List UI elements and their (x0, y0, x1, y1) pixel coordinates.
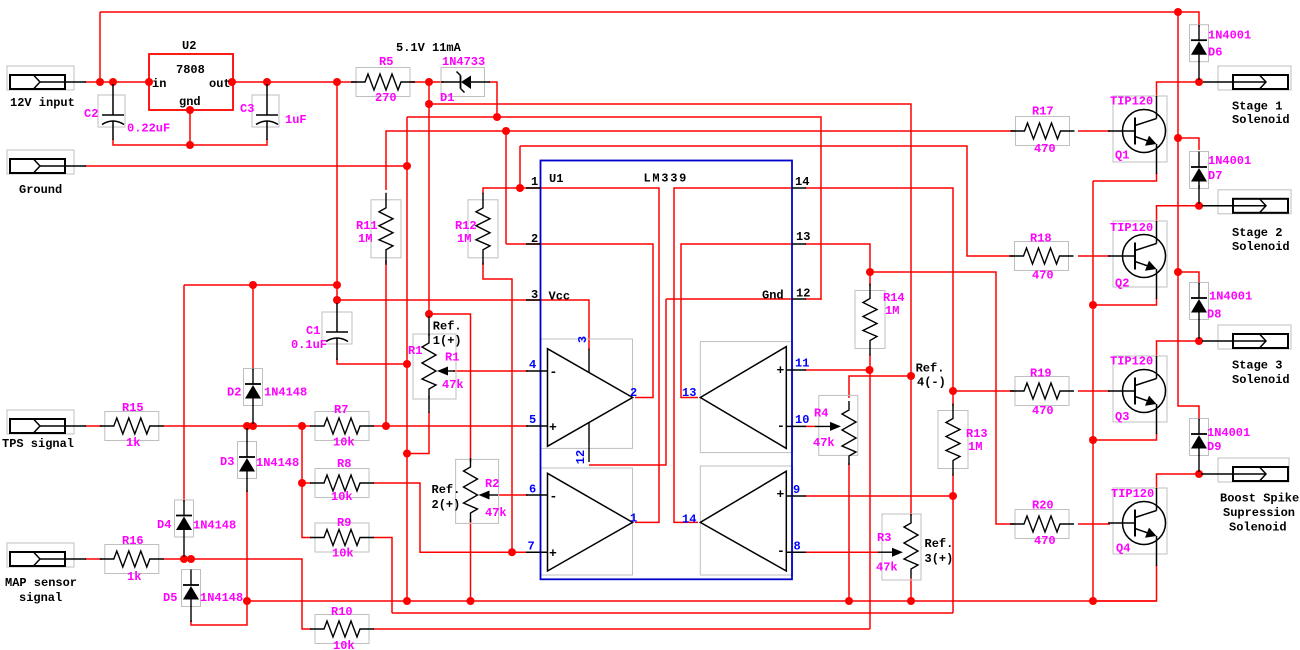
svg-text:1N4148: 1N4148 (256, 456, 299, 470)
resistor R10 10k (315, 615, 369, 644)
connector J3 TPS signal (7, 410, 74, 434)
svg-text:D7: D7 (1208, 169, 1222, 183)
wire R14 bottom (869, 354, 871, 370)
resistor R18 470 (1015, 242, 1069, 271)
connector J8 Boost Spike Supression Solenoid (1218, 458, 1289, 482)
wire C2-C3 bottom row (113, 139, 267, 145)
svg-text:R16: R16 (122, 534, 144, 548)
wire pin13 bus to R20 (870, 272, 1015, 524)
zener diode D1 1N4733 (441, 68, 485, 97)
wire pin6 row from R2 wiper (498, 494, 528, 496)
svg-text:Solenoid: Solenoid (1232, 240, 1290, 254)
wire pin2 riser (505, 131, 507, 244)
IC U1 LM339 box (541, 161, 793, 580)
svg-text:D5: D5 (163, 591, 177, 605)
wire R13 top lead (952, 391, 954, 406)
svg-text:0.1uF: 0.1uF (291, 338, 327, 352)
svg-text:470: 470 (1032, 404, 1054, 418)
wire R8 left stub (302, 482, 311, 484)
wire pin9 row (805, 495, 953, 497)
wire 5.1V distribution bus (429, 104, 911, 378)
svg-text:gnd: gnd (179, 95, 201, 109)
svg-text:7808: 7808 (176, 63, 205, 77)
svg-text:Ref.: Ref. (433, 320, 462, 334)
wire +12V rail right side (1178, 12, 1199, 420)
svg-text:D6: D6 (1208, 46, 1222, 60)
svg-text:LM339: LM339 (644, 172, 689, 186)
svg-text:6: 6 (529, 483, 536, 497)
resistor R20 470 (1015, 510, 1069, 539)
svg-text:12: 12 (574, 450, 588, 464)
svg-text:47k: 47k (442, 378, 464, 392)
svg-text:4: 4 (529, 358, 536, 372)
wire TPS branch riser to R8 R9 (302, 426, 311, 538)
svg-text:2(+): 2(+) (432, 498, 461, 512)
svg-text:470: 470 (1032, 269, 1054, 283)
svg-text:R11: R11 (356, 219, 378, 233)
wire Gnd pin12 internal row (589, 299, 666, 465)
wire pin11 row (805, 369, 870, 371)
wire Q2 emitter to rail (1093, 298, 1157, 305)
wire pin4 row from R1 wiper (453, 370, 528, 372)
svg-text:TPS signal: TPS signal (2, 437, 74, 451)
svg-text:47k: 47k (485, 506, 507, 520)
svg-text:1N4148: 1N4148 (200, 591, 243, 605)
svg-text:Ref.: Ref. (916, 362, 945, 376)
wire D4 riser (183, 285, 185, 502)
wire R9 bus (392, 612, 953, 614)
connector J4 MAP sensor signal (7, 543, 74, 567)
svg-text:U1: U1 (549, 172, 563, 186)
svg-text:R1: R1 (445, 351, 459, 365)
wire Q1 emitter to rail (1093, 173, 1157, 181)
wire MAP connector to R16 (85, 558, 102, 560)
svg-text:U2: U2 (182, 39, 196, 53)
wire Q4 collector to D9 node (1157, 474, 1200, 489)
wire pin13 stub to R14 (805, 244, 870, 286)
svg-text:D9: D9 (1207, 440, 1221, 454)
svg-text:Stage 3: Stage 3 (1232, 359, 1282, 373)
svg-text:Ground: Ground (19, 183, 62, 197)
svg-text:R9: R9 (337, 516, 351, 530)
wire R18 to Q2 base (1078, 255, 1110, 257)
wire regulator out to R5 (232, 81, 357, 83)
connector J5 Stage 1 Solenoid (1218, 66, 1291, 90)
wire Q3 emitter to rail (1093, 433, 1157, 440)
svg-text:R12: R12 (455, 219, 477, 233)
wire TPS row R7 to pin5 (373, 425, 528, 427)
diode D8 1N4001 (1190, 283, 1209, 320)
svg-text:Gnd: Gnd (762, 289, 784, 303)
svg-text:1N4148: 1N4148 (264, 386, 307, 400)
wire regulator gnd pin (189, 110, 191, 145)
svg-text:470: 470 (1034, 142, 1056, 156)
svg-text:TIP120: TIP120 (1110, 355, 1153, 369)
wire pin10 stub (805, 425, 815, 427)
diode D4 1N4148 (175, 500, 194, 537)
svg-text:R3: R3 (877, 531, 891, 545)
wire D2 top lead riser (252, 285, 254, 370)
svg-text:R19: R19 (1030, 367, 1052, 381)
svg-text:R13: R13 (966, 427, 988, 441)
wire pin1 bus to R18 (520, 146, 1015, 256)
wire 12V input to regulator row (85, 81, 149, 83)
wire R4 top to 5.1V (849, 376, 911, 398)
pin stubs U1 (526, 187, 541, 189)
wire U1a output bus to R17 (386, 131, 1015, 190)
wire pin11 riser to R10 bus (869, 370, 871, 629)
wire C1 bottom to ground rail (337, 358, 407, 364)
transistor Q1 TIP120 (1113, 96, 1167, 162)
svg-text:5.1V 11mA: 5.1V 11mA (396, 41, 462, 55)
svg-text:D1: D1 (440, 91, 454, 105)
wire Q2 collector to D7 node (1157, 206, 1200, 222)
wire Q3 collector to D8 node (1157, 341, 1200, 357)
svg-text:TIP120: TIP120 (1110, 95, 1153, 109)
potentiometer R2 47k Ref 2 (456, 459, 499, 523)
svg-text:10k: 10k (333, 639, 355, 650)
svg-text:270: 270 (375, 91, 397, 105)
wire R17 to Q1 base (1078, 130, 1110, 132)
svg-text:-: - (550, 489, 558, 504)
wire top +12V bus riser (99, 12, 101, 82)
svg-text:Q2: Q2 (1115, 277, 1129, 291)
svg-text:5: 5 (529, 413, 536, 427)
wire Vcc pin3 row (337, 299, 528, 301)
svg-text:-: - (777, 544, 785, 559)
wire R8 to pin7 (373, 483, 528, 552)
wire node D2-top row (184, 284, 337, 286)
wire ground rail (406, 117, 408, 601)
svg-text:in: in (152, 77, 166, 91)
diode D5 1N4148 (182, 570, 201, 607)
resistor R11 1M (371, 200, 401, 258)
svg-text:1M: 1M (457, 232, 471, 246)
svg-text:TIP120: TIP120 (1110, 221, 1153, 235)
wire pin13 internal from U1d output (681, 244, 792, 398)
diode D6 1N4001 (1190, 25, 1209, 62)
capacitor C2 0.22uF (98, 95, 125, 127)
svg-text:11: 11 (795, 357, 809, 371)
wire Gnd pin12 stub to ground riser (805, 298, 821, 300)
svg-text:+: + (549, 546, 557, 561)
svg-text:Solenoid: Solenoid (1232, 113, 1290, 127)
svg-text:1N4001: 1N4001 (1208, 29, 1251, 43)
svg-text:1k: 1k (126, 436, 140, 450)
wire Vcc internal to U1a power (528, 300, 589, 350)
wire MAP row (163, 559, 311, 629)
svg-text:1(+): 1(+) (433, 334, 462, 348)
wire +8V rail down to C1 (336, 82, 338, 304)
svg-text:10k: 10k (331, 490, 353, 504)
wire pin1 riser to bus (519, 146, 521, 188)
wire 5.1V riser to pots (428, 82, 430, 317)
svg-text:2: 2 (630, 386, 637, 400)
svg-text:Solenoid: Solenoid (1229, 521, 1287, 535)
wire pin9 riser to R9 bus (952, 496, 954, 613)
svg-text:R4: R4 (814, 407, 828, 421)
wire top +12V bus (100, 12, 1199, 27)
svg-text:MAP sensor: MAP sensor (5, 576, 77, 590)
svg-text:470: 470 (1034, 534, 1056, 548)
wire Q4 emitter to ground bus (1093, 565, 1157, 601)
svg-text:-: - (550, 365, 558, 380)
wire pin14 internal from U1c output (674, 188, 792, 522)
svg-text:1N4148: 1N4148 (193, 519, 236, 533)
potentiometer R1 47k Ref 1 (413, 334, 456, 399)
svg-text:R15: R15 (122, 401, 144, 415)
capacitor C3 1uF (252, 95, 279, 127)
svg-text:1: 1 (531, 175, 538, 189)
wire R11 bottom to pin5 row (385, 260, 387, 426)
resistor R13 1M (938, 411, 968, 469)
svg-text:out: out (209, 77, 231, 91)
svg-text:R7: R7 (334, 403, 348, 417)
svg-text:R2: R2 (485, 477, 499, 491)
transistor Q3 TIP120 (1113, 356, 1167, 422)
svg-text:Q1: Q1 (1115, 149, 1129, 163)
wire pin2 internal to U1a output (528, 244, 653, 398)
wire emitter rail (1092, 181, 1094, 601)
svg-text:Vcc: Vcc (549, 290, 571, 304)
svg-text:-: - (777, 419, 785, 434)
svg-text:1uF: 1uF (285, 113, 307, 127)
svg-text:TIP120: TIP120 (1111, 487, 1154, 501)
connector J7 Stage 3 Solenoid (1218, 325, 1291, 349)
resistor R19 470 (1015, 377, 1069, 406)
wire pin1 row (483, 188, 528, 194)
svg-text:1: 1 (630, 512, 637, 526)
wire R1 pot bottom to ground rail (407, 412, 429, 454)
resistor R9 10k (315, 523, 369, 552)
svg-text:4(-): 4(-) (917, 376, 946, 390)
diode D7 1N4001 (1190, 152, 1209, 189)
wire TPS connector to R15 (85, 425, 102, 427)
svg-text:D2: D2 (227, 386, 241, 400)
wire R1 pot top row to R2 top (429, 314, 471, 462)
wire R13 bottom to pin9 (952, 474, 954, 496)
wire R10 bus (373, 628, 870, 630)
svg-text:+: + (777, 487, 785, 502)
svg-text:1N4001: 1N4001 (1209, 290, 1252, 304)
resistor R16 1k (105, 545, 159, 574)
wire R20 to Q4 base (1078, 523, 1110, 525)
connector J6 Stage 2 Solenoid (1218, 190, 1291, 214)
wire pin8 row to R3 wiper (805, 551, 878, 553)
svg-text:3(+): 3(+) (925, 552, 954, 566)
svg-text:9: 9 (793, 483, 800, 497)
svg-text:Solenoid: Solenoid (1232, 373, 1290, 387)
wire R9 riser (373, 538, 392, 614)
wire D7 branch from +12V rail (1178, 138, 1199, 150)
svg-text:1N4001: 1N4001 (1208, 154, 1251, 168)
diode D9 1N4001 (1190, 419, 1209, 456)
junction dots (96, 78, 104, 86)
svg-text:7: 7 (528, 540, 535, 554)
svg-text:+: + (549, 420, 557, 435)
svg-text:R14: R14 (883, 291, 905, 305)
svg-text:R1: R1 (408, 344, 422, 358)
wire ground top bus (407, 117, 821, 300)
svg-text:47k: 47k (876, 561, 898, 575)
resistor R17 470 (1016, 117, 1070, 146)
wire pin2 stub row (506, 243, 528, 245)
svg-text:12V input: 12V input (10, 96, 75, 110)
svg-text:8: 8 (794, 540, 801, 554)
wire R4 pot bottom to ground bus (848, 463, 850, 601)
svg-text:R8: R8 (337, 457, 351, 471)
resistor R7 10k (315, 412, 369, 441)
svg-text:0.22uF: 0.22uF (127, 122, 170, 136)
svg-text:D8: D8 (1207, 308, 1221, 322)
svg-text:3: 3 (576, 336, 590, 343)
potentiometer R3 47k Ref 3 (882, 514, 921, 580)
svg-text:R10: R10 (331, 605, 353, 619)
svg-text:Q4: Q4 (1116, 542, 1130, 556)
regulator U2 7808 (149, 54, 233, 110)
wire ground bus bottom (247, 600, 1157, 602)
wire R5 to D1 5.1V node (409, 81, 444, 83)
wire Ground connector to rail (85, 165, 407, 167)
svg-text:13: 13 (682, 386, 696, 400)
svg-text:Boost Spike: Boost Spike (1220, 492, 1299, 506)
wire R3 pot bottom to ground bus (910, 578, 912, 601)
capacitor C1 0.1uF (322, 312, 352, 344)
transistor Q2 TIP120 (1113, 221, 1167, 287)
svg-text:14: 14 (795, 175, 809, 189)
svg-text:Q3: Q3 (1115, 410, 1129, 424)
wire 5.1V riser to R3 top (910, 376, 912, 516)
svg-text:C1: C1 (306, 324, 320, 338)
svg-text:Supression: Supression (1223, 506, 1295, 520)
svg-text:10k: 10k (332, 547, 354, 561)
svg-text:signal: signal (19, 591, 62, 605)
wire R19 row (953, 390, 1015, 392)
svg-text:Ref.: Ref. (925, 537, 954, 551)
diode D2 1N4148 (244, 369, 263, 406)
svg-text:3: 3 (531, 288, 538, 302)
svg-text:14: 14 (682, 513, 696, 527)
wire R2 pot bottom to ground bus (470, 519, 472, 601)
transistor Q4 TIP120 (1113, 488, 1167, 554)
svg-text:C3: C3 (240, 102, 254, 116)
resistor R5 270 (356, 68, 410, 97)
wire pin1 internal to U1b output (528, 188, 659, 522)
resistor R12 1M (468, 200, 498, 258)
svg-text:D4: D4 (157, 518, 171, 532)
wire D3 D5 anode riser (191, 490, 247, 625)
connector J2 Ground (7, 150, 74, 174)
svg-text:47k: 47k (813, 436, 835, 450)
op-amp U1c (700, 466, 792, 575)
svg-text:1N4733: 1N4733 (442, 55, 485, 69)
svg-text:1M: 1M (358, 232, 372, 246)
connector J1 12V input (7, 66, 74, 90)
svg-text:1N4001: 1N4001 (1207, 426, 1250, 440)
potentiometer R4 47k Ref 4 (819, 395, 858, 455)
wire D8 branch from +12V rail (1178, 272, 1199, 284)
svg-text:12: 12 (796, 287, 810, 301)
resistor R14 1M (855, 291, 885, 349)
resistor R8 10k (315, 469, 369, 498)
svg-text:R20: R20 (1032, 499, 1054, 513)
svg-text:R17: R17 (1032, 105, 1054, 119)
resistor R15 1k (105, 412, 159, 441)
wire R12 bottom to pin7 riser (483, 262, 512, 552)
svg-text:Ref.: Ref. (432, 483, 461, 497)
svg-text:+: + (777, 363, 785, 378)
svg-text:R5: R5 (379, 55, 393, 69)
svg-text:D3: D3 (220, 455, 234, 469)
svg-text:C2: C2 (84, 107, 98, 121)
svg-text:10k: 10k (333, 436, 355, 450)
svg-text:13: 13 (796, 230, 810, 244)
svg-text:1k: 1k (127, 570, 141, 584)
svg-text:1M: 1M (968, 440, 982, 454)
svg-text:Stage 2: Stage 2 (1232, 226, 1282, 240)
op-amp U1d (700, 342, 792, 453)
op-amp U1b (541, 468, 633, 575)
svg-text:1M: 1M (885, 304, 899, 318)
svg-text:Stage 1: Stage 1 (1232, 100, 1282, 114)
diode D3 1N4148 (238, 442, 257, 479)
wire R19 to Q3 base (1078, 390, 1110, 392)
wire pin14 stub riser (805, 188, 953, 391)
svg-text:2: 2 (531, 232, 538, 246)
svg-text:10: 10 (795, 413, 809, 427)
wire Q1 collector to D6 node (1157, 82, 1200, 97)
wire D1 anode to ground bus (489, 82, 497, 117)
wire TPS row R15 to R7 (163, 425, 311, 427)
op-amp U1a (541, 339, 633, 448)
svg-text:R18: R18 (1030, 232, 1052, 246)
